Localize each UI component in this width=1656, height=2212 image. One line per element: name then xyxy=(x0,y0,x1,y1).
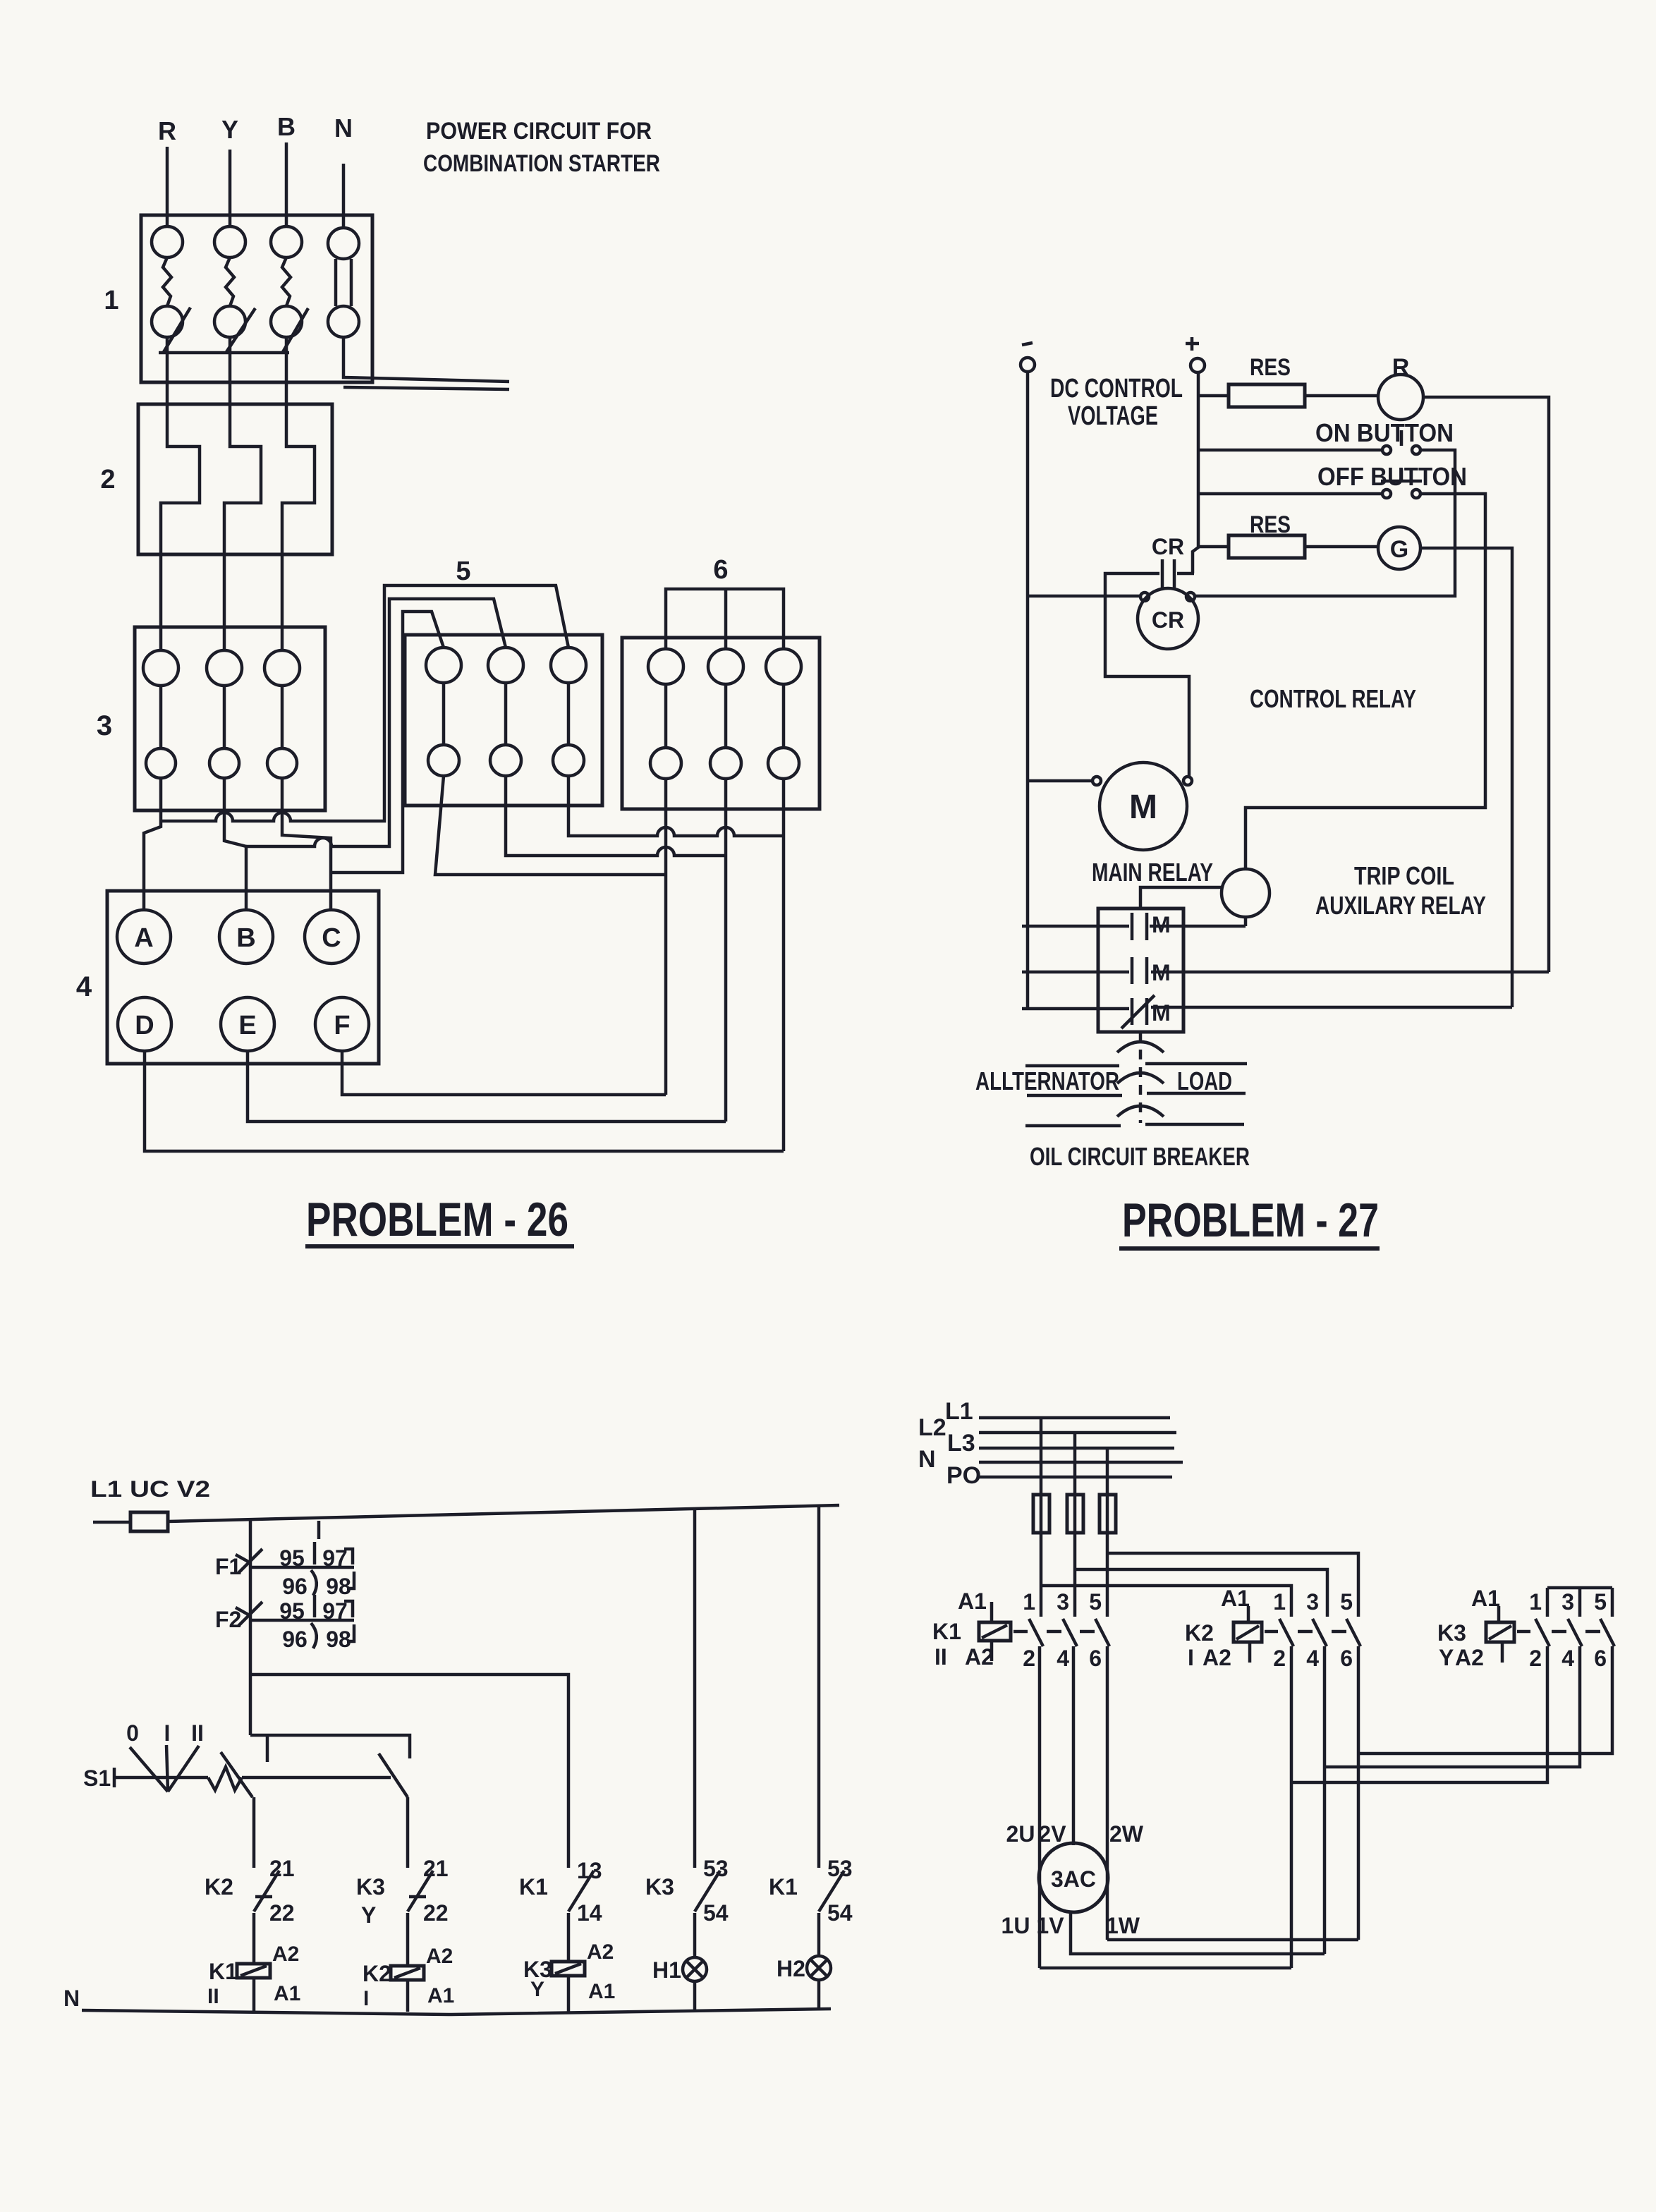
contact K2 1-2 xyxy=(1273,1589,1293,1671)
contactor 5 pole 2 xyxy=(488,648,523,776)
wire K1 contact4 to motor 2V xyxy=(1072,1646,1076,1845)
wire contactor6 pole1 down xyxy=(664,779,668,1095)
wire feed to K2 contact 5 xyxy=(1107,1553,1358,1617)
svg-text:F1: F1 xyxy=(215,1554,241,1579)
svg-text:53: 53 xyxy=(703,1856,729,1881)
wire L1 rail xyxy=(168,1505,839,1521)
svg-text:2U: 2U xyxy=(1006,1821,1035,1847)
contactor 3 pole 1 xyxy=(143,650,178,778)
wire M3 left to minus rail xyxy=(1022,1007,1129,1011)
svg-text:M: M xyxy=(1152,1000,1171,1026)
svg-text:K3: K3 xyxy=(356,1874,385,1900)
svg-text:2: 2 xyxy=(1023,1646,1035,1671)
wire R supply lead xyxy=(166,147,169,227)
lamp H1 xyxy=(652,1957,707,1983)
svg-text:3AC: 3AC xyxy=(1051,1866,1096,1892)
terminal D xyxy=(118,997,171,1051)
contact K2 21-22 (NC) xyxy=(205,1856,295,1926)
contactor K3 coil xyxy=(1437,1586,1514,1670)
heater element B (unit 2) xyxy=(282,404,315,554)
svg-text:6: 6 xyxy=(1089,1646,1102,1671)
wire rail L3 xyxy=(979,1447,1174,1450)
wire K1 contact6 to motor 2W xyxy=(1106,1646,1109,1940)
wire H2 branch from rail xyxy=(817,1507,821,1868)
svg-text:0: 0 xyxy=(126,1720,139,1746)
wire main branch from rail to F1 xyxy=(249,1519,252,1567)
wire lamp H1 to N xyxy=(693,1981,697,2012)
svg-text:2W: 2W xyxy=(1109,1821,1144,1847)
svg-text:A2: A2 xyxy=(426,1945,453,1968)
wire M2 left to minus rail xyxy=(1022,971,1129,974)
svg-text:K2: K2 xyxy=(1185,1620,1214,1646)
contactor 6 enclosure xyxy=(622,638,820,809)
svg-text:3: 3 xyxy=(97,710,112,741)
wire right drop to M contact 2 xyxy=(1151,971,1549,974)
wire motor 1W run to K2 column xyxy=(1107,1938,1358,1942)
relay coil M (main relay) xyxy=(1092,762,1192,850)
contactor 6 star bridge xyxy=(666,589,784,649)
wire feed to K2 contact 1 xyxy=(1041,1586,1291,1617)
wire K2 contact6 column xyxy=(1357,1646,1360,1940)
wire trip coil left lead to breaker box xyxy=(1140,887,1222,909)
switch-fuse unit 1 enclosure xyxy=(141,215,372,382)
svg-text:Y: Y xyxy=(530,1978,544,2001)
svg-text:Y: Y xyxy=(361,1902,376,1928)
wire G lamp to right drop xyxy=(1420,548,1512,1007)
minus terminal xyxy=(1021,343,1035,372)
contactor K1 coil xyxy=(932,1588,1011,1670)
wire L1 rail left stub xyxy=(93,1521,130,1524)
breaker arc chute middle xyxy=(1117,1073,1164,1083)
heater element Y (unit 2) xyxy=(224,404,261,554)
svg-text:LOAD: LOAD xyxy=(1177,1066,1232,1095)
svg-text:R: R xyxy=(158,116,176,145)
wire contact to lamp H2 xyxy=(817,1913,821,1956)
contactor 3 pole 3 xyxy=(264,650,300,778)
fuse Y (pole 2 of unit 1) xyxy=(214,226,245,337)
svg-text:K2: K2 xyxy=(363,1961,391,1986)
contactor 6 pole 3 xyxy=(766,649,801,779)
star bridge K3 top xyxy=(1547,1588,1612,1617)
heater element R (unit 2) xyxy=(161,404,200,554)
wire contact to lamp H1 xyxy=(693,1913,697,1958)
svg-text:CR: CR xyxy=(1152,607,1184,633)
svg-text:1: 1 xyxy=(1023,1589,1035,1615)
motor 3AC xyxy=(1039,1843,1108,1912)
svg-text:21: 21 xyxy=(423,1856,449,1881)
svg-text:A2: A2 xyxy=(1203,1645,1231,1670)
fuse 3 xyxy=(1100,1495,1116,1533)
svg-text:N: N xyxy=(918,1446,936,1473)
wire CR contact right to plus rail xyxy=(1177,572,1194,576)
contact K1 5-6 xyxy=(1089,1589,1109,1671)
contact K3 5-6 xyxy=(1594,1589,1614,1671)
contact K1 13-14 (NO) xyxy=(519,1858,602,1926)
svg-text:MAIN RELAY: MAIN RELAY xyxy=(1092,858,1213,887)
svg-text:A2: A2 xyxy=(965,1644,994,1670)
wire N supply lead xyxy=(342,164,346,229)
svg-text:1: 1 xyxy=(1273,1589,1286,1615)
lamp H2 xyxy=(777,1956,831,1981)
svg-text:4: 4 xyxy=(76,971,92,1002)
wire coil K3 to N xyxy=(567,1976,571,2012)
svg-text:CR: CR xyxy=(1152,534,1184,559)
wire feed to K2 contact 3 xyxy=(1075,1569,1327,1617)
wire contactor5 pole2 to contactor6 pole2 wire (with hop) xyxy=(506,776,726,856)
svg-text:VOLTAGE: VOLTAGE xyxy=(1068,401,1158,431)
wire M coil to minus rail xyxy=(1028,779,1092,783)
svg-text:95: 95 xyxy=(279,1598,305,1624)
wire R lamp to right drop xyxy=(1423,397,1549,972)
wire F1 to F2 xyxy=(249,1567,252,1620)
svg-text:OIL CIRCUIT BREAKER: OIL CIRCUIT BREAKER xyxy=(1030,1142,1250,1171)
wire S1 bracket stub pole1 xyxy=(266,1735,269,1762)
switch S1 blade pole2 xyxy=(379,1754,408,1797)
wire delta bridge K2-2 to K3-2 xyxy=(1291,1646,1547,1782)
svg-text:2: 2 xyxy=(1529,1646,1542,1671)
contactor 3 pole 2 xyxy=(207,650,242,778)
wire R pole output xyxy=(166,337,169,404)
overload contact F1 xyxy=(236,1521,354,1599)
contact M3 with trip slash xyxy=(1121,995,1171,1028)
breaker arc chute bottom xyxy=(1117,1106,1164,1117)
svg-text:A1: A1 xyxy=(958,1588,987,1614)
wire fuse2 to K1 contact 3 xyxy=(1073,1533,1077,1617)
switch S1 common lead xyxy=(114,1767,391,1790)
svg-text:M: M xyxy=(1152,960,1171,985)
wire contactor6 pole2 down xyxy=(724,779,728,1122)
contactor 5 enclosure xyxy=(405,635,602,806)
wire contactor5 pole1 to contactor6 pole1 wire xyxy=(435,776,666,875)
contactor K2 coil xyxy=(1185,1586,1262,1670)
svg-text:COMBINATION STARTER: COMBINATION STARTER xyxy=(423,150,660,177)
svg-text:2: 2 xyxy=(1273,1646,1286,1671)
fuse 2 xyxy=(1067,1495,1083,1533)
svg-text:2: 2 xyxy=(100,465,115,494)
svg-text:A2: A2 xyxy=(587,1940,614,1964)
svg-text:A2: A2 xyxy=(272,1943,299,1966)
svg-text:L3: L3 xyxy=(947,1430,975,1457)
contact K3 21-22 (NC) xyxy=(356,1856,449,1928)
wire Y supply lead xyxy=(229,150,232,227)
linkage dashes K1 xyxy=(1013,1630,1095,1634)
wire contact to coil K3 xyxy=(567,1913,571,1962)
svg-text:5: 5 xyxy=(456,557,470,586)
terminal block 4 enclosure xyxy=(107,891,379,1064)
wire unit2 to contactor3 pole2 xyxy=(223,554,226,650)
svg-text:II: II xyxy=(934,1644,947,1670)
busbar row3 right xyxy=(1145,1123,1244,1126)
svg-text:A1: A1 xyxy=(1221,1586,1250,1611)
wire ON button feed xyxy=(1198,449,1382,452)
wire delta bridge K2-4 to K3-4 xyxy=(1325,1646,1580,1767)
contact K3 3-4 xyxy=(1561,1589,1582,1671)
resistor RES upper xyxy=(1198,384,1378,407)
svg-text:1V: 1V xyxy=(1036,1913,1064,1938)
svg-text:6: 6 xyxy=(713,555,728,585)
svg-text:S1: S1 xyxy=(83,1766,111,1791)
selector position pointer lines xyxy=(130,1745,199,1792)
wire K2 contact4 column xyxy=(1323,1646,1327,1954)
svg-text:B: B xyxy=(277,112,296,141)
wire rail PO xyxy=(979,1476,1172,1479)
svg-text:K1: K1 xyxy=(209,1959,238,1984)
svg-text:N: N xyxy=(63,1986,80,2011)
svg-text:M: M xyxy=(1129,789,1157,826)
contact K1 1-2 xyxy=(1023,1589,1043,1671)
terminal C xyxy=(305,910,358,964)
wire fuse3 to K1 contact 5 xyxy=(1106,1533,1109,1617)
wire L1 tap to fuse 1 xyxy=(1040,1418,1043,1495)
svg-text:96: 96 xyxy=(282,1574,308,1599)
wire contactor5 pole3 to contactor6 pole3 wire (with hops) xyxy=(568,776,784,836)
contact M1 xyxy=(1132,912,1171,940)
svg-text:POWER CIRCUIT FOR: POWER CIRCUIT FOR xyxy=(426,118,652,145)
svg-text:PO: PO xyxy=(946,1462,981,1489)
svg-text:D: D xyxy=(135,1011,154,1040)
svg-text:A2: A2 xyxy=(1455,1645,1484,1670)
svg-text:F: F xyxy=(334,1011,350,1040)
svg-text:95: 95 xyxy=(279,1545,305,1571)
contact K1 3-4 xyxy=(1057,1589,1077,1671)
wire contactor6 pole3 down xyxy=(782,779,786,1151)
wire B supply lead xyxy=(285,142,288,227)
svg-text:4: 4 xyxy=(1057,1646,1069,1671)
svg-text:53: 53 xyxy=(827,1856,853,1881)
wire motor 1V lead xyxy=(1071,1912,1325,1954)
overload relay unit 2 enclosure xyxy=(138,404,332,554)
svg-text:A1: A1 xyxy=(1471,1586,1500,1611)
wire contactor3 pole2 to terminal B xyxy=(224,778,246,911)
coil K1 xyxy=(207,1943,300,2008)
wire coil K1 to N xyxy=(252,1978,256,2012)
svg-text:Y: Y xyxy=(1439,1645,1454,1670)
wire lamp H2 to N xyxy=(817,1980,821,2010)
overload contact F2 xyxy=(236,1595,354,1652)
svg-text:6: 6 xyxy=(1340,1646,1353,1671)
wire bus phase1 to contactor5 feed (with hops) xyxy=(161,585,568,821)
busbar row1 left xyxy=(1025,1064,1119,1068)
svg-text:PROBLEM - 27: PROBLEM - 27 xyxy=(1122,1193,1379,1247)
svg-text:OFF BUTTON: OFF BUTTON xyxy=(1317,462,1467,491)
svg-text:98: 98 xyxy=(326,1627,351,1652)
svg-text:F2: F2 xyxy=(215,1607,241,1632)
contact M2 xyxy=(1132,957,1171,985)
wire delta bridge K2-6 to K3-6 xyxy=(1358,1646,1612,1754)
svg-text:I: I xyxy=(1188,1645,1194,1670)
resistor RES lower xyxy=(1198,535,1378,558)
svg-text:3: 3 xyxy=(1306,1589,1319,1615)
wire contact to coil K2 xyxy=(406,1913,410,1966)
wire L3 tap to fuse 3 xyxy=(1106,1448,1109,1495)
plus terminal xyxy=(1186,337,1205,372)
wire H1 branch from rail xyxy=(693,1509,697,1868)
coil K3 xyxy=(523,1940,615,2003)
svg-text:4: 4 xyxy=(1561,1646,1574,1671)
svg-text:RES: RES xyxy=(1250,354,1291,381)
switch blade R xyxy=(164,308,190,352)
contactor 5 pole 3 xyxy=(551,648,586,776)
wire rail N xyxy=(979,1461,1183,1464)
wire rail L1 xyxy=(979,1416,1170,1420)
breaker auxiliary contact box xyxy=(1098,909,1183,1032)
svg-text:5: 5 xyxy=(1594,1589,1607,1615)
wire OFF button feed xyxy=(1198,492,1382,496)
svg-text:96: 96 xyxy=(282,1627,308,1652)
svg-text:21: 21 xyxy=(269,1856,295,1881)
relay coil CR xyxy=(1138,588,1198,649)
svg-text:L1: L1 xyxy=(945,1398,973,1425)
svg-text:ALLTERNATOR: ALLTERNATOR xyxy=(975,1066,1119,1095)
wire contactor3 pole1 to terminal A xyxy=(144,778,161,911)
lamp R xyxy=(1378,375,1423,420)
terminal F xyxy=(315,997,369,1051)
wire N rail xyxy=(82,2009,831,2015)
svg-text:Y: Y xyxy=(221,115,238,144)
svg-text:1: 1 xyxy=(1529,1589,1542,1615)
contact K2 3-4 xyxy=(1306,1589,1327,1671)
svg-text:DC CONTROL: DC CONTROL xyxy=(1050,374,1183,403)
fuse on L1 rail xyxy=(130,1512,168,1531)
svg-text:A: A xyxy=(134,923,153,953)
svg-text:97: 97 xyxy=(322,1598,348,1624)
coil K2 xyxy=(363,1945,454,2010)
fuse B (pole 3 of unit 1) xyxy=(271,226,302,337)
wire right drop to M contact 3 xyxy=(1151,1006,1512,1009)
svg-text:97: 97 xyxy=(322,1545,348,1571)
wire unit2 to contactor3 pole1 xyxy=(159,554,163,650)
svg-text:K1: K1 xyxy=(769,1874,798,1900)
contactor 6 pole 2 xyxy=(708,649,743,779)
contact K2 5-6 xyxy=(1340,1589,1360,1671)
svg-text:I: I xyxy=(164,1720,171,1746)
linkage dashes K2 xyxy=(1265,1630,1346,1634)
svg-text:AUXILARY RELAY: AUXILARY RELAY xyxy=(1315,891,1486,920)
lamp G xyxy=(1378,527,1420,569)
wire motor 1U run to K2 column xyxy=(1040,1967,1291,1970)
fuse N cartridge (pole 4 of unit 1) xyxy=(328,228,359,337)
terminal A xyxy=(117,910,171,964)
svg-text:6: 6 xyxy=(1594,1646,1607,1671)
wire trip coil bottom lead xyxy=(1244,917,1248,926)
svg-text:3: 3 xyxy=(1057,1589,1069,1615)
pushbutton ON xyxy=(1382,430,1420,454)
wire bus phase3 to contactor5 feed xyxy=(331,612,444,873)
svg-text:H1: H1 xyxy=(652,1957,681,1983)
contact K1 53-54 (NO) xyxy=(769,1856,853,1926)
wire fuse1 to K1 contact 1 xyxy=(1040,1533,1043,1617)
svg-text:5: 5 xyxy=(1089,1589,1102,1615)
contactor 3 enclosure xyxy=(135,627,325,810)
svg-text:5: 5 xyxy=(1340,1589,1353,1615)
svg-text:ON BUTTON: ON BUTTON xyxy=(1315,418,1454,447)
svg-text:K3: K3 xyxy=(645,1874,674,1900)
svg-text:K1: K1 xyxy=(932,1619,961,1644)
busbar row3 left xyxy=(1025,1124,1121,1128)
svg-text:A1: A1 xyxy=(588,1980,615,2003)
wire coil K2 to N xyxy=(406,1980,410,2012)
contactor 6 bridge stub pole2 xyxy=(724,589,728,649)
wire branch to K1 aux contact 13 xyxy=(250,1675,568,1868)
svg-text:54: 54 xyxy=(827,1900,853,1926)
wire N pole output (double run to the right) xyxy=(343,337,509,382)
svg-text:A1: A1 xyxy=(274,1982,300,2005)
svg-text:3: 3 xyxy=(1561,1589,1574,1615)
svg-text:K3: K3 xyxy=(1437,1620,1466,1646)
svg-text:L1 UC V2: L1 UC V2 xyxy=(90,1476,210,1502)
busbar row2 right xyxy=(1147,1092,1246,1095)
wire S1 feed bracket xyxy=(250,1735,410,1758)
wire plus rail xyxy=(1193,372,1198,573)
wire B pole output xyxy=(285,337,288,404)
svg-text:II: II xyxy=(191,1720,204,1746)
wire contactor3 pole3 to terminal C xyxy=(282,778,331,911)
terminal B xyxy=(219,910,273,964)
wire minus rail xyxy=(1026,372,1030,1010)
svg-text:E: E xyxy=(238,1011,256,1040)
switch S1 blade pole1 xyxy=(221,1752,252,1797)
wire M1 right to trip coil xyxy=(1150,925,1246,928)
wire ON button to CR coil branch xyxy=(1195,450,1455,596)
pushbutton OFF xyxy=(1381,468,1422,498)
contact CR (holding contact) xyxy=(1162,559,1174,588)
wire K2 contact2 column xyxy=(1290,1646,1293,1968)
svg-text:N: N xyxy=(334,114,353,142)
svg-text:K2: K2 xyxy=(205,1874,233,1900)
switch blade B xyxy=(283,308,308,352)
fuse R (pole 1 of unit 1) xyxy=(152,226,183,337)
wire K1 contact2 to motor 2U xyxy=(1038,1646,1042,1968)
svg-text:4: 4 xyxy=(1306,1646,1319,1671)
svg-text:TRIP COIL: TRIP COIL xyxy=(1354,861,1454,890)
wire CR contact left to M coil xyxy=(1105,573,1189,777)
wire unit2 to contactor3 pole3 xyxy=(281,554,284,650)
svg-text:14: 14 xyxy=(577,1900,602,1926)
svg-text:1W: 1W xyxy=(1106,1913,1140,1938)
wire rail L2 xyxy=(979,1431,1176,1435)
wire Y pole output xyxy=(229,337,232,404)
svg-text:13: 13 xyxy=(577,1858,602,1883)
terminal E xyxy=(221,997,274,1051)
svg-text:L2: L2 xyxy=(918,1414,946,1441)
switch blade Y xyxy=(226,308,255,352)
svg-text:2V: 2V xyxy=(1038,1821,1066,1847)
svg-text:22: 22 xyxy=(423,1900,449,1926)
svg-text:98: 98 xyxy=(326,1574,351,1599)
svg-text:II: II xyxy=(207,1985,219,2008)
wire OFF button to trip coil xyxy=(1246,494,1485,869)
contactor 5 pole 1 xyxy=(426,648,461,776)
svg-text:H2: H2 xyxy=(777,1956,805,1981)
linkage dashes K3 xyxy=(1517,1630,1600,1634)
fuse 1 xyxy=(1033,1495,1049,1533)
wire L2 tap to fuse 2 xyxy=(1073,1433,1077,1495)
svg-text:1: 1 xyxy=(104,286,118,315)
switch linkage bar xyxy=(159,351,289,355)
svg-text:B: B xyxy=(236,923,255,953)
svg-text:CONTROL RELAY: CONTROL RELAY xyxy=(1250,684,1416,713)
svg-text:22: 22 xyxy=(269,1900,295,1926)
contactor 6 pole 1 xyxy=(648,649,683,779)
wire bus phase2 to contactor5 feed (with hop) xyxy=(246,599,506,846)
wire N lower parallel run xyxy=(343,387,509,389)
trip coil auxiliary relay xyxy=(1222,869,1270,917)
wire M1 left to minus rail xyxy=(1022,925,1129,928)
wire contact to coil K1 xyxy=(252,1913,256,1964)
svg-text:A1: A1 xyxy=(427,1984,454,2007)
contact K3 53-54 (NO) xyxy=(645,1856,729,1926)
contact K3 1-2 xyxy=(1529,1589,1550,1671)
